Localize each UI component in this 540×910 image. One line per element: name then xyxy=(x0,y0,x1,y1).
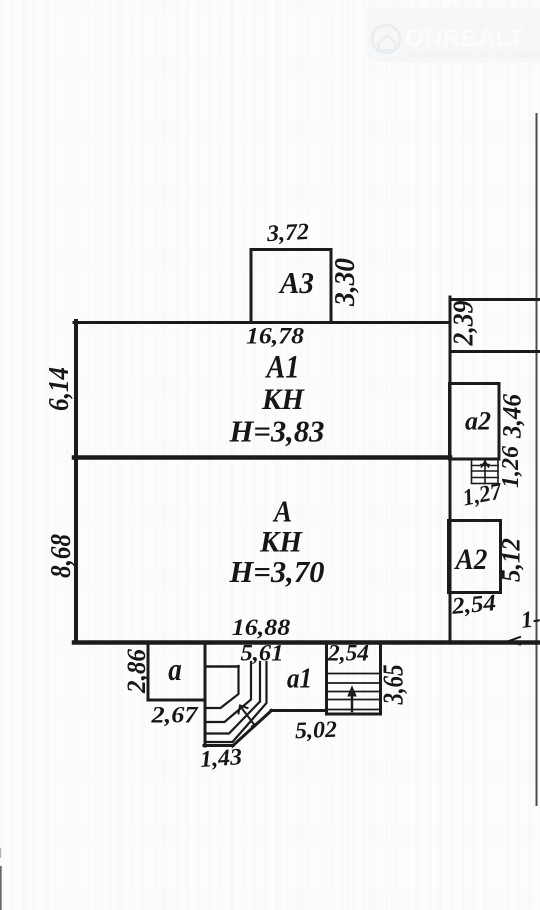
winder step 3 xyxy=(207,662,260,734)
stair box up arrow xyxy=(351,692,353,711)
room a walls xyxy=(148,643,204,700)
svg-text:5,02: 5,02 xyxy=(295,717,338,744)
main building top wall xyxy=(74,321,450,324)
svg-text:3,30: 3,30 xyxy=(330,258,361,307)
svg-text:КН: КН xyxy=(261,384,305,416)
room A3 walls xyxy=(251,250,331,322)
room a2 walls xyxy=(450,384,500,460)
svg-text:НЕДВИЖИМОСТЬ БЕЗ ПОСРЕДНИКОВ: НЕДВИЖИМОСТЬ БЕЗ ПОСРЕДНИКОВ xyxy=(406,50,540,59)
svg-text:2,54: 2,54 xyxy=(327,641,369,667)
stairs ladder below a2 xyxy=(472,460,499,484)
section arrow tick on bottom wall xyxy=(509,637,520,645)
svg-text:а: а xyxy=(168,651,182,687)
svg-text:2,39: 2,39 xyxy=(449,301,480,347)
svg-text:а1: а1 xyxy=(287,664,312,695)
main building right wall xyxy=(449,297,452,641)
svg-text:16,78: 16,78 xyxy=(246,324,304,350)
stair box right walls xyxy=(327,643,381,714)
svg-text:1,27: 1,27 xyxy=(461,478,505,511)
strip 2,39 bottom wall xyxy=(450,350,540,353)
winder step 1 xyxy=(207,666,239,708)
stair box rungs xyxy=(327,674,380,710)
svg-text:2,67: 2,67 xyxy=(150,703,199,729)
svg-text:1-2: 1-2 xyxy=(520,604,540,634)
svg-text:А: А xyxy=(272,495,292,529)
room a1 bottom wall xyxy=(271,709,326,712)
stair outer diagonal xyxy=(233,711,272,747)
svg-text:3,65: 3,65 xyxy=(379,665,410,706)
svg-text:8,68: 8,68 xyxy=(46,534,77,578)
svg-text:1,43: 1,43 xyxy=(199,744,243,773)
stair block bottom wall xyxy=(204,744,233,747)
strip 2,39 top wall xyxy=(452,298,540,301)
winder step 4 xyxy=(207,662,267,742)
svg-text:ONREALT: ONREALT xyxy=(405,25,524,52)
svg-text:Н=3,83: Н=3,83 xyxy=(229,414,325,449)
winder top edge xyxy=(207,665,239,667)
svg-text:2,54: 2,54 xyxy=(450,590,497,620)
watermark logo ring xyxy=(372,25,400,53)
stair block left wall xyxy=(204,643,207,746)
winder step 2 xyxy=(207,662,251,722)
svg-text:16,88: 16,88 xyxy=(232,615,291,641)
stair direction arrow xyxy=(239,706,258,727)
page edge mark bottom-left xyxy=(0,866,2,910)
svg-text:5,12: 5,12 xyxy=(497,538,526,582)
svg-text:а2: а2 xyxy=(465,407,491,436)
page edge line right xyxy=(536,113,538,806)
svg-text:5,61: 5,61 xyxy=(241,641,284,667)
main building bottom wall xyxy=(74,640,540,645)
svg-text:1,26: 1,26 xyxy=(498,446,524,488)
svg-text:2,86: 2,86 xyxy=(122,649,151,694)
svg-text:А3: А3 xyxy=(278,265,314,300)
watermark badge xyxy=(366,7,540,62)
svg-text:3,46: 3,46 xyxy=(498,394,527,439)
svg-text:А1: А1 xyxy=(265,350,300,386)
room A2 walls xyxy=(449,521,501,593)
svg-text:Н=3,70: Н=3,70 xyxy=(229,554,325,589)
svg-text:6,14: 6,14 xyxy=(44,367,75,411)
divider wall A1/A xyxy=(74,455,450,460)
main building left wall xyxy=(74,321,78,641)
svg-text:3,72: 3,72 xyxy=(265,219,310,247)
svg-text:А2: А2 xyxy=(454,544,488,576)
